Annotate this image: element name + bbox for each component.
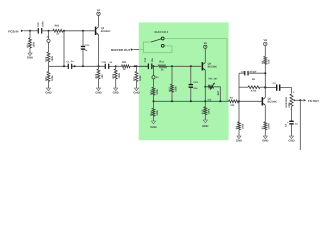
node rail3 junctions (153, 100, 155, 102)
svg-text:R14: R14 (150, 111, 153, 116)
svg-text:GND: GND (150, 125, 156, 129)
svg-text:GND: GND (27, 55, 33, 59)
node rail junctions (63, 65, 65, 67)
node wiper junction (299, 99, 301, 101)
ground GND3 (114, 88, 118, 91)
svg-text:100k: 100k (156, 110, 159, 116)
svg-text:C15: C15 (193, 81, 198, 84)
node base wire 2 (82, 30, 84, 32)
wire feedback left (238, 73, 240, 101)
wire R16 to green box (130, 65, 149, 67)
wire collector line (264, 64, 266, 97)
svg-text:SET: SET (217, 90, 220, 95)
svg-text:100k: 100k (51, 55, 54, 61)
svg-text:FS OUT: FS OUT (308, 99, 319, 103)
wire Q2 emitter (264, 105, 266, 122)
svg-text:100k: 100k (118, 72, 121, 78)
svg-text:10u: 10u (151, 58, 154, 63)
resistor R13 100k (171, 66, 173, 84)
svg-text:VB: VB (263, 39, 267, 42)
svg-text:R10: R10 (133, 76, 136, 81)
wire down from wiper (299, 100, 301, 150)
power VA stage1 (98, 16, 100, 27)
wire R02 to rail (48, 62, 50, 66)
wire switch feed muted (139, 42, 151, 50)
svg-text:BC546C: BC546C (208, 66, 218, 69)
svg-text:R11: R11 (159, 60, 164, 63)
resistor R6 10k (264, 46, 266, 57)
svg-text:R13: R13 (168, 87, 171, 92)
resistor R08 10k (98, 66, 100, 69)
node after C10 (48, 30, 50, 32)
wire pot to C4 (291, 106, 293, 121)
svg-text:GND: GND (288, 138, 294, 142)
wire Q3 emitter (98, 35, 100, 67)
svg-text:BC546C: BC546C (101, 30, 111, 33)
svg-text:C11: C11 (85, 44, 90, 47)
svg-text:GND: GND (113, 90, 119, 94)
svg-text:C12: C12 (102, 61, 107, 64)
ground GND5 (46, 88, 50, 91)
resistor R02 100k (48, 42, 50, 52)
capacitor C12 1u on rail (105, 64, 106, 69)
ground GND7 (203, 120, 207, 123)
svg-text:VA: VA (204, 42, 208, 45)
highlight box BUFFER 2 region (139, 22, 229, 140)
svg-text:GND: GND (45, 90, 51, 94)
capacitor C15 10u (190, 66, 192, 84)
capacitor C2 470pF (244, 71, 245, 76)
svg-text:BUFFER OUT: BUFFER OUT (111, 48, 130, 52)
svg-text:VA: VA (97, 9, 101, 12)
node input junction (29, 30, 31, 32)
transistor Q2 BC546C (262, 97, 264, 105)
resistor R12 100k (153, 79, 155, 88)
resistor R10 100k (136, 66, 138, 71)
ground GND2 (96, 88, 100, 91)
node base stage3 (238, 100, 240, 102)
resistor R16 1k on rail (122, 65, 131, 68)
svg-text:100k: 100k (208, 108, 211, 114)
node rail2 junctions (171, 65, 173, 67)
svg-text:R12: R12 (150, 90, 153, 95)
svg-text:C10: C10 (37, 22, 40, 27)
svg-text:10k: 10k (268, 59, 271, 64)
wire to C3 (265, 87, 276, 89)
resistor R14 100k (153, 101, 155, 108)
capacitor C10 100n (38, 28, 39, 34)
capacitor C1 1u on rail (68, 64, 69, 69)
wire emitter rail stage1 (49, 65, 69, 67)
resistor R15 100k (204, 101, 206, 107)
svg-text:BUFFER 2: BUFFER 2 (155, 30, 169, 34)
svg-text:R15: R15 (202, 109, 205, 114)
ground GND6 (151, 121, 155, 124)
jumper J1 circle (48, 31, 50, 39)
capacitor C11 1u (82, 31, 84, 46)
power VA stage2 (204, 49, 206, 63)
resistor R2 100k (238, 101, 240, 121)
svg-text:R02: R02 (45, 56, 48, 61)
svg-text:100R: 100R (268, 123, 271, 129)
ground GND1 (28, 53, 32, 56)
switch S1 lever (151, 39, 161, 42)
svg-text:10k: 10k (101, 74, 104, 79)
svg-text:C13: C13 (144, 57, 147, 62)
resistor R09 100k (115, 66, 117, 69)
svg-text:10k: 10k (230, 104, 235, 107)
transistor Q4 BC546C (202, 62, 204, 70)
ground GND4 (134, 88, 138, 91)
wire trimmer to rail3 (216, 87, 220, 102)
wire Q4 emitter (204, 70, 206, 87)
svg-text:100k: 100k (139, 75, 142, 81)
svg-text:GND: GND (262, 138, 268, 142)
svg-text:GND: GND (202, 124, 208, 128)
svg-text:R01: R01 (26, 42, 29, 47)
svg-text:100k: 100k (241, 123, 244, 129)
node collector junctions (264, 72, 266, 74)
wire C13 to R11 (151, 65, 158, 67)
svg-text:BC546C: BC546C (268, 101, 278, 104)
wire C2 to collector line (248, 72, 265, 74)
wire C3 to pot (280, 88, 291, 94)
svg-text:TR1: TR1 (208, 77, 213, 80)
resistor R01 100k (29, 31, 31, 38)
svg-text:100n: 100n (42, 21, 45, 27)
svg-text:100k: 100k (156, 89, 159, 95)
resistor R05 1k (53, 29, 63, 32)
resistor R3 10k (229, 100, 239, 103)
wire emitter down (204, 87, 206, 102)
wire bias tap (63, 31, 65, 67)
svg-text:100k: 100k (174, 86, 177, 92)
capacitor C13 10u (148, 64, 149, 70)
wire R11 to Q4 base (167, 65, 202, 67)
switch S1 throw contacts (161, 37, 164, 40)
node base wire 1 (63, 30, 65, 32)
capacitor C3 10u (276, 84, 277, 90)
transistor Q3 BC546C (95, 27, 97, 35)
node C13 branch (153, 65, 155, 67)
svg-text:PCB IN: PCB IN (8, 30, 18, 34)
wire wiper out (295, 99, 303, 101)
wire rail into box (139, 65, 149, 67)
wire after C10 (42, 30, 53, 32)
svg-text:GND: GND (95, 90, 101, 94)
svg-text:GND: GND (236, 138, 242, 142)
svg-text:R09: R09 (112, 73, 115, 78)
svg-text:10u: 10u (193, 87, 198, 90)
wire R3 to Q2 base (239, 100, 262, 102)
node emitter split (204, 86, 206, 88)
capacitor C4 1u (289, 121, 293, 122)
resistor R11 1k (159, 65, 167, 68)
wire input (24, 30, 39, 32)
wire bypass loop muted (144, 46, 173, 53)
resistor R03 100k lower stage1 (48, 66, 50, 71)
svg-text:470k: 470k (251, 90, 257, 93)
wire R05 to Q3 base (63, 30, 95, 32)
wire bypass top muted (164, 38, 227, 40)
potentiometer SUSTAIN 100k (290, 94, 293, 106)
resistor R7 100R (264, 122, 267, 130)
svg-text:100k: 100k (32, 41, 35, 47)
trimmer TR1 4k7 (205, 86, 208, 88)
svg-text:GND: GND (133, 90, 139, 94)
jumper J2 circle (153, 66, 155, 75)
svg-text:R11: R11 (122, 61, 127, 64)
wire rail3 inside box (154, 100, 229, 102)
ground GND10 (237, 136, 241, 139)
svg-text:R05: R05 (55, 25, 60, 28)
svg-text:100k: 100k (51, 75, 54, 81)
ground GND9 (263, 136, 267, 139)
ground GND8 (289, 136, 293, 139)
svg-text:R08: R08 (95, 73, 98, 78)
port FS OUT (304, 99, 307, 102)
wire bypass right muted (226, 39, 228, 102)
svg-text:R03: R03 (45, 76, 48, 81)
